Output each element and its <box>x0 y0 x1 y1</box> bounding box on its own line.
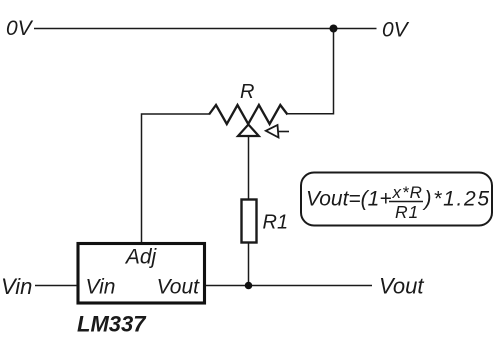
resistor R1 body <box>242 200 257 243</box>
svg-text:LM337: LM337 <box>77 312 147 337</box>
wire top 0V rail <box>34 28 377 30</box>
svg-text:R1: R1 <box>263 212 289 234</box>
potentiometer wiper arrow shaft <box>276 131 289 133</box>
wire 0V rail down to pot right terminal <box>287 29 334 114</box>
junction top 0V node <box>330 25 338 33</box>
svg-text:Vin: Vin <box>1 274 32 299</box>
potentiometer R resistive body <box>209 105 288 124</box>
wire wiper down to R1 <box>248 136 250 200</box>
wire R1 down to Vout rail <box>248 243 250 286</box>
svg-text:R: R <box>240 81 254 103</box>
svg-text:Vout: Vout <box>157 276 201 299</box>
IC U1 LM337 body <box>78 244 205 304</box>
wire Vin input <box>35 285 77 287</box>
svg-text:0V: 0V <box>382 19 410 42</box>
svg-text:x*R: x*R <box>392 183 423 202</box>
svg-text:0V: 0V <box>6 17 34 40</box>
wire Adj pin up and to pot left terminal <box>142 114 210 242</box>
junction Vout node <box>245 282 253 290</box>
svg-text:Vout=(1+: Vout=(1+ <box>306 188 392 211</box>
formula box outline <box>301 173 492 226</box>
formula fraction bar <box>389 201 423 203</box>
wire Vout output rail <box>206 285 372 287</box>
potentiometer wiper triangle <box>238 125 259 137</box>
svg-text:)*1.25: )*1.25 <box>422 188 491 211</box>
svg-text:Vin: Vin <box>86 276 116 299</box>
svg-text:R1: R1 <box>395 202 419 222</box>
potentiometer wiper arrow head <box>266 125 279 138</box>
svg-text:Vout: Vout <box>379 274 424 299</box>
svg-text:Adj: Adj <box>124 246 158 269</box>
